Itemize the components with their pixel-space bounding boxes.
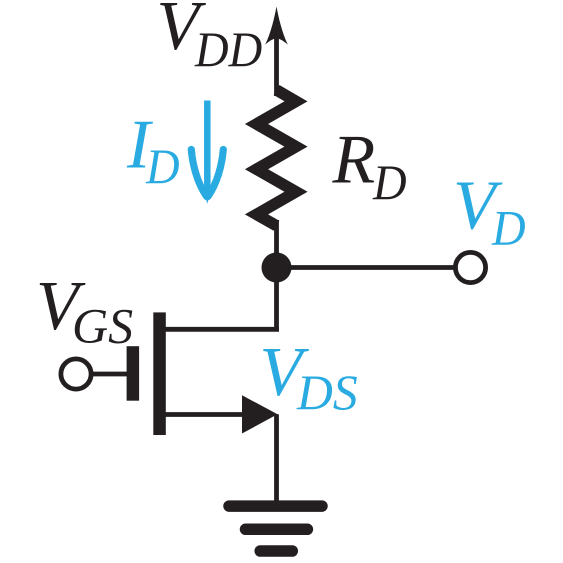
svg-text:D: D xyxy=(372,154,407,210)
transistor M1 gate bar xyxy=(127,346,140,401)
label VDD xyxy=(157,0,263,77)
wire drain horizontal xyxy=(160,327,279,332)
wire gate xyxy=(90,372,127,377)
wire source down to ground xyxy=(274,414,279,502)
resistor RD xyxy=(257,90,297,226)
label VGS xyxy=(36,268,133,354)
label VDS xyxy=(260,334,358,420)
node (drain junction) xyxy=(262,253,292,283)
svg-text:D: D xyxy=(145,138,180,194)
output terminal (VD) xyxy=(455,252,485,282)
wire resistor to node xyxy=(274,220,279,268)
svg-text:DS: DS xyxy=(296,364,358,420)
input terminal (VGS) xyxy=(61,359,91,389)
svg-text:R: R xyxy=(332,121,376,198)
wire node down to drain xyxy=(274,268,279,332)
wire source xyxy=(160,412,245,417)
source arrowhead xyxy=(242,395,278,433)
label ID xyxy=(126,107,180,195)
wire node to output terminal xyxy=(277,265,456,270)
current arrow ID xyxy=(191,101,223,197)
ground xyxy=(229,506,322,551)
svg-text:DD: DD xyxy=(194,21,262,77)
transistor M1 channel bar xyxy=(153,312,166,435)
svg-text:D: D xyxy=(491,200,526,256)
supply arrow (VDD) xyxy=(265,7,288,97)
label RD xyxy=(332,121,407,210)
svg-text:GS: GS xyxy=(72,298,133,354)
label VD xyxy=(453,168,526,256)
